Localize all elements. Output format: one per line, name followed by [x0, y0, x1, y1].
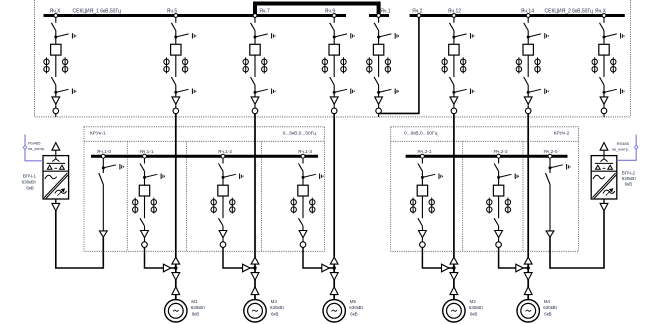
circuit breaker Q, cell Яч.1 [373, 44, 383, 55]
circuit breaker Q, cell Яч.12 [449, 44, 459, 55]
current transformers TA, cell Яч.2-2 [487, 198, 511, 214]
wire: cell Яч.1 [378, 104, 380, 108]
disconnector QS, cell Яч.2-2 [494, 164, 499, 172]
cable plug connector, cell Яч.12 [450, 97, 458, 104]
wire: stem of cell Яч.1-1 [144, 158, 146, 164]
cable plug connector, cell Яч.X-right [600, 97, 608, 104]
wire: cell Яч.1-3 [302, 171, 304, 185]
ВПЧ-1 winding link dash [54, 167, 57, 169]
wire: cell Яч.1-3 [302, 238, 304, 242]
svg-text:Яч.2-2: Яч.2-2 [493, 149, 508, 155]
wire: ВПЧ-2 to lower run [603, 199, 605, 203]
wire: cell Яч.5 [175, 104, 177, 108]
earthing switch QSG2, cell Яч.X-left [56, 89, 76, 95]
busbar КРУн-2 [406, 155, 568, 158]
wire: cell Яч.9 [333, 31, 335, 44]
wire: cell Яч.9 [333, 104, 335, 108]
svg-text:M5: M5 [350, 299, 357, 304]
disconnector QS lower, cell Яч.2-2 [494, 218, 499, 226]
cable plug connector, cell Яч.1-0 [99, 231, 107, 237]
node: junction, cell Яч.X-right [603, 36, 606, 39]
node: bus connection point cell Яч.1 [377, 14, 381, 18]
svg-text:630кВт: 630кВт [349, 305, 363, 310]
node: bus connection point cell Яч.12 [452, 14, 456, 18]
current transformers TA, cell Яч.9 [322, 57, 346, 73]
earthing switch QSG, cell Яч.2-2 [499, 174, 519, 180]
svg-text:630кВт: 630кВт [469, 305, 483, 310]
wire: cell Яч.1 [378, 85, 380, 97]
wire: stem of cell Яч.1 [378, 17, 380, 23]
svg-text:0...6кВ,0...50Гц: 0...6кВ,0...50Гц [283, 131, 317, 137]
disconnector QS lower, cell Яч.1-3 [299, 218, 304, 226]
svg-text:на_контр.: на_контр. [28, 147, 45, 151]
current transformers TA, cell Яч.1-2 [211, 198, 235, 214]
earthing switch QSG1, cell Яч.7 [255, 33, 275, 39]
ВПЧ-1 winding separation bar [47, 162, 65, 164]
wire: cell Яч.1-1 [144, 226, 146, 231]
cable terminal circle, cell Яч.7 [252, 108, 258, 114]
disconnector QS lower, cell Яч.12 [449, 77, 454, 85]
disconnector QS upper, cell Яч.X-right [600, 23, 605, 31]
circuit breaker Q, cell Яч.X-right [599, 44, 609, 55]
cable plug connector, cell Яч.14 [524, 97, 532, 104]
node: junction, cell Яч.X-right [603, 91, 606, 94]
wire: cell Яч.X-left [55, 85, 57, 97]
switchgear room dashed border left [34, 0, 36, 117]
node: bus connection point cell Яч.1-3 [301, 154, 305, 158]
wire: stem of cell Яч.1-2 [222, 158, 224, 164]
wire: cell Яч.14 [527, 55, 529, 77]
wire: cell Яч.1-1 [144, 238, 146, 242]
busbar tie stub segment for cell Яч.1 [369, 14, 389, 17]
wire: direct feeder line down to motor M2 [453, 114, 455, 300]
wire: direct feeder line down to motor M5 [333, 114, 335, 300]
wire: cell Яч.X-left outgoing [55, 114, 57, 117]
earthing switch QSG, cell Яч.1-1 [145, 174, 165, 180]
node: junction, cell Яч.9 [333, 91, 336, 94]
svg-text:630кВт: 630кВт [622, 176, 636, 181]
svg-text:RS485: RS485 [28, 141, 41, 146]
ВПЧ-1 output variable-frequency sine symbol [55, 190, 67, 193]
svg-text:630кВт: 630кВт [191, 305, 205, 310]
svg-text:Яч.1-1: Яч.1-1 [139, 149, 154, 155]
current transformers TA, cell Яч.X-right [592, 57, 616, 73]
svg-text:Яч.1: Яч.1 [380, 9, 391, 15]
cable plug connector, cell Яч.1-2 [219, 231, 227, 238]
earthing switch QSG, cell Яч.2-1 [422, 174, 442, 180]
wire: stem of cell Яч.2-1 [421, 158, 423, 164]
svg-text:6кВ: 6кВ [470, 311, 477, 316]
cable plug connector, cell Яч.5 [172, 97, 180, 104]
earthing switch QSG1, cell Яч.9 [334, 33, 354, 39]
node: junction, cell Яч.7 [254, 91, 257, 94]
svg-text:СЕКЦИЯ_1 6кВ,50Гц: СЕКЦИЯ_1 6кВ,50Гц [73, 9, 122, 15]
disconnector QS upper, cell Яч.7 [251, 23, 256, 31]
wire: cell Яч.X-right [603, 31, 605, 44]
flow direction arrow into M4 junction [516, 264, 524, 272]
frequency converter ВПЧ-1 enclosure [43, 156, 69, 199]
node: bus connection point cell Яч.X-right [602, 14, 606, 18]
wire: M4 VFD branch from КРУн cell [499, 247, 529, 268]
separable connector upper half, M4 [524, 273, 532, 281]
disconnector QS upper, cell Яч.14 [524, 23, 529, 31]
separable connector upper half, M5 [330, 273, 338, 281]
disconnector QS lower, cell Яч.X-right [600, 77, 605, 85]
ВПЧ-2 input sine symbol [593, 175, 605, 179]
switchgear room dashed border right [630, 0, 632, 117]
connector plug above M4 junction [524, 257, 532, 264]
circuit breaker Q, cell Яч.9 [329, 44, 339, 55]
cable terminal circle, cell Яч.14 [525, 108, 531, 114]
node: junction, cell Яч.5 [174, 36, 177, 39]
wire: M3 VFD branch from КРУн cell [223, 247, 255, 268]
disconnector QS upper, cell Яч.1 [374, 23, 379, 31]
svg-text:Яч.1-3: Яч.1-3 [298, 149, 313, 155]
cable plug connector, cell Яч.2-1 [419, 231, 427, 238]
earthing switch QSG2, cell Яч.12 [454, 89, 474, 95]
cable plug connector below ВПЧ-2 [600, 203, 608, 211]
svg-text:630кВт: 630кВт [22, 180, 36, 185]
flow direction arrow into M5 junction [322, 264, 330, 272]
cable plug connector, cell Яч.7 [251, 97, 259, 104]
svg-text:RS485: RS485 [617, 141, 630, 146]
svg-text:M4: M4 [544, 299, 551, 304]
КРУн-2 dashed enclosure [391, 127, 579, 252]
earthing switch QSG1, cell Яч.1 [379, 33, 399, 39]
disconnector QS lower, cell Яч.14 [524, 77, 529, 85]
wire: cell Яч.7 [254, 31, 256, 44]
circuit breaker Q, cell Яч.5 [171, 44, 181, 55]
wire: stem of cell Яч.2-0 [549, 158, 551, 173]
node: bus connection point cell Яч.1-1 [143, 154, 147, 158]
node: junction, cell Яч.X-left [54, 36, 57, 39]
earthing switch QSG2, cell Яч.1 [379, 89, 399, 95]
cable plug connector below ВПЧ-1 [52, 203, 60, 211]
node: junction, cell Яч.2-0 [549, 166, 552, 169]
separable connector upper half, M3 [251, 273, 259, 281]
wire: cell Яч.1-3 [302, 196, 304, 218]
wire: direct feeder line down to motor M3 [254, 114, 256, 300]
node: junction, cell Яч.X-left [54, 91, 57, 94]
ВПЧ-2 winding link dash [603, 167, 606, 169]
node: bus connection point cell Яч.2-1 [421, 154, 425, 158]
separable connector lower half, M3 [251, 287, 259, 295]
wire: stem of cell Яч.1-3 [302, 158, 304, 164]
flow direction arrow into M3 junction [243, 264, 251, 272]
disconnector QS upper, cell Яч.5 [171, 23, 176, 31]
cable plug connector, cell Яч.1-3 [299, 231, 307, 238]
circuit breaker Q, cell Яч.14 [523, 44, 533, 55]
wire: cell Яч.2-2 [498, 196, 500, 218]
svg-text:Яч.2: Яч.2 [412, 9, 423, 15]
node: junction, cell Яч.1 [377, 91, 380, 94]
wire: stem of cell Яч.9 [333, 17, 335, 23]
cable terminal circle, cell Яч.1-2 [220, 242, 226, 248]
disconnector QS, cell Яч.1-1 [140, 164, 145, 172]
node: junction, cell Яч.2-2 [497, 176, 500, 179]
bus tie overpass right drop to Яч.1 stub [377, 4, 381, 15]
current transformers TA, cell Яч.14 [516, 57, 540, 73]
node: bus connection point cell Яч.1-2 [221, 154, 225, 158]
ВПЧ-2 output variable-frequency sine symbol [603, 190, 615, 193]
wire: cell Яч.12 [453, 31, 455, 44]
earthing switch QSG1, cell Яч.5 [176, 33, 196, 39]
wire: cell Яч.12 outgoing [453, 114, 455, 117]
earthing switch QSG2, cell Яч.7 [255, 89, 275, 95]
svg-text:6кВ: 6кВ [271, 311, 278, 316]
wire: M2 VFD branch from КРУн cell [422, 247, 454, 268]
current transformers TA, cell Яч.2-1 [410, 198, 434, 214]
earthing switch QSG1, cell Яч.12 [454, 33, 474, 39]
КРУн-2 cell separator 1 [462, 141, 464, 251]
current transformers TA, cell Яч.1 [367, 57, 391, 73]
svg-text:КРУн-2: КРУн-2 [554, 131, 570, 137]
node: junction at motor M5 [333, 266, 336, 269]
wire: Яч.2-0 run to ВПЧ-2 output [550, 267, 605, 269]
wire: cell Яч.7 outgoing [254, 114, 256, 117]
svg-text:630кВт: 630кВт [543, 305, 557, 310]
wire: cell Яч.1-2 [222, 226, 224, 231]
earthing switch QSG1, cell Яч.14 [528, 33, 548, 39]
svg-text:630кВт: 630кВт [270, 305, 284, 310]
earthing switch QSG, cell Яч.1-3 [303, 174, 323, 180]
ВПЧ-1 secondary delta winding 2 [60, 165, 65, 169]
motor M4 [517, 300, 539, 322]
wire: cell Яч.5 [175, 55, 177, 77]
disconnector QS lower, cell Яч.2-1 [418, 218, 423, 226]
wire: tie cable Яч.1 bottom to Яч.2 riser [379, 17, 419, 113]
node: junction, cell Яч.12 [452, 91, 455, 94]
bus tie overpass left drop to section 1 [253, 4, 257, 15]
disconnector QS upper, cell Яч.12 [449, 23, 454, 31]
cable plug connector, cell Яч.X-left [52, 97, 60, 104]
busbar section 2 СЕКЦИЯ_2 [410, 14, 625, 17]
wire: direct feeder line down to motor M4 [527, 114, 529, 300]
motor M3 [244, 300, 266, 322]
wire: cell Яч.12 [453, 55, 455, 77]
flow direction arrow into M1 junction [163, 264, 171, 272]
cable terminal circle, cell Яч.1-1 [142, 242, 148, 248]
ВПЧ-2 secondary delta winding 1 [596, 165, 601, 169]
cable terminal circle, cell Яч.12 [451, 108, 457, 114]
wire: stem of cell Яч.7 [254, 17, 256, 23]
wire: cell Яч.14 [527, 104, 529, 108]
earthing switch QSG1, cell Яч.X-left [56, 33, 76, 39]
ВПЧ-1 converter diagonal [44, 173, 67, 198]
disconnector QS, cell Яч.2-1 [418, 164, 423, 172]
cable terminal circle, cell Яч.5 [173, 108, 179, 114]
cable plug connector, cell Яч.9 [330, 97, 338, 104]
wire: cell Яч.1-1 [144, 171, 146, 185]
wire: cell Яч.2-1 [421, 226, 423, 231]
wire: Яч.1-0 riser [102, 237, 104, 269]
wire: cell Яч.7 [254, 55, 256, 77]
node: junction, cell Яч.1-2 [222, 176, 225, 179]
bus tie overpass link bar [253, 2, 381, 6]
ВПЧ-2 winding separation bar [595, 162, 613, 164]
connector plug above M5 junction [330, 257, 338, 264]
separable connector lower half, M5 [330, 287, 338, 295]
svg-text:ВПЧ-2: ВПЧ-2 [622, 171, 636, 176]
earthing switch QSG1, cell Яч.X-right [604, 33, 624, 39]
ВПЧ-1 input sine symbol [45, 175, 57, 179]
wire: cell Яч.2-1 [421, 196, 423, 218]
svg-text:на_контр.: на_контр. [612, 147, 629, 151]
disconnector QS lower, cell Яч.9 [330, 77, 335, 85]
cable terminal circle, cell Яч.X-right [601, 108, 607, 114]
connector plug above M3 junction [251, 257, 259, 264]
wire: cell Яч.9 outgoing [333, 114, 335, 117]
connector plug above M1 junction [172, 257, 180, 264]
wire: cell Яч.X-left [55, 55, 57, 77]
separable connector upper half, M2 [450, 273, 458, 281]
disconnector QS lower, cell Яч.7 [251, 77, 256, 85]
wire: cell Яч.1-1 [144, 196, 146, 218]
disconnector QS upper, cell Яч.9 [330, 23, 335, 31]
disconnector QS lower, cell Яч.X-left [51, 77, 56, 85]
wire: cell Яч.X-right [603, 104, 605, 108]
wire: M5 VFD branch from КРУн cell [303, 247, 334, 268]
wire: cell Яч.X-left [55, 31, 57, 44]
node: junction, cell Яч.1-1 [143, 176, 146, 179]
busbar КРУн-1 [91, 155, 318, 158]
svg-text:Яч.7: Яч.7 [259, 9, 270, 15]
svg-text:M1: M1 [191, 299, 198, 304]
motor M2 [443, 300, 465, 322]
wire: cell Яч.1-2 [222, 196, 224, 218]
frequency converter ВПЧ-2 enclosure [591, 156, 617, 199]
node: junction, cell Яч.1-3 [302, 176, 305, 179]
wire: cell Яч.2-1 [421, 171, 423, 185]
separable connector lower half, M1 [172, 287, 180, 295]
svg-text:6кВ: 6кВ [625, 181, 632, 186]
busbar section 1 СЕКЦИЯ_1 [44, 14, 347, 17]
disconnector QS, cell Яч.2-0 [546, 173, 551, 185]
wire: cell Яч.12 [453, 85, 455, 97]
separable connector lower half, M2 [450, 287, 458, 295]
current transformers TA, cell Яч.1-3 [291, 198, 315, 214]
vacuum contactor KM, cell Яч.1-1 [139, 185, 149, 196]
cable terminal circle, cell Яч.1-3 [300, 242, 306, 248]
node: bus connection point cell Яч.7 [253, 14, 257, 18]
node: junction at motor M2 [452, 266, 455, 269]
disconnector QS upper, cell Яч.X-left [51, 23, 56, 31]
node: bus connection point cell Яч.2-0 [548, 154, 552, 158]
wire: cell Яч.9 [333, 55, 335, 77]
node: bus connection point cell Яч.9 [332, 14, 336, 18]
ВПЧ-1 primary winding symbol [52, 156, 59, 161]
cable plug connector, cell Яч.2-2 [495, 231, 503, 238]
КРУн-2 cell separator 2 [522, 141, 524, 251]
wire: ВПЧ-1 output down [55, 211, 57, 268]
svg-text:КРУн-1: КРУн-1 [90, 131, 106, 137]
ВПЧ-2 primary winding symbol [600, 156, 607, 161]
wire: Яч.2-0 down run [549, 237, 551, 269]
cable terminal circle, cell Яч.1 [376, 108, 382, 114]
ВПЧ-2 secondary delta winding 2 [608, 165, 613, 169]
wire: cell Яч.X-right outgoing [603, 114, 605, 117]
wire: cell Яч.X-right [603, 55, 605, 77]
current transformers TA, cell Яч.5 [164, 57, 188, 73]
ВПЧ-2 transformer compartment divider [591, 170, 617, 172]
motor M1 [165, 300, 187, 322]
circuit breaker Q, cell Яч.7 [250, 44, 260, 55]
svg-text:M2: M2 [470, 299, 477, 304]
ВПЧ-2 converter diagonal 2 [594, 175, 616, 198]
wire: cell Яч.1 [378, 55, 380, 77]
disconnector QS lower, cell Яч.1-1 [140, 218, 145, 226]
current transformers TA, cell Яч.X-left [44, 57, 68, 73]
wire: cell Яч.5 [175, 31, 177, 44]
svg-text:ВПЧ-1: ВПЧ-1 [23, 174, 37, 179]
vacuum contactor KM, cell Яч.1-2 [218, 185, 228, 196]
wire: ВПЧ-2 output down [603, 211, 605, 268]
earthing switch QSG2, cell Яч.5 [176, 89, 196, 95]
disconnector QS, cell Яч.1-0 [99, 173, 104, 185]
wire: stem of cell Яч.5 [175, 17, 177, 23]
node: junction, cell Яч.12 [452, 36, 455, 39]
ВПЧ-1 converter diagonal 2 [46, 175, 68, 198]
earthing switch QSG2, cell Яч.9 [334, 89, 354, 95]
current transformers TA, cell Яч.12 [442, 57, 466, 73]
wire: cell Яч.1 outgoing [378, 114, 380, 117]
wire: direct feeder line down to motor M1 [175, 114, 177, 300]
wire: cell Яч.2-2 [498, 238, 500, 242]
cable terminal circle, cell Яч.2-2 [496, 242, 502, 248]
wire: cell Яч.1 [378, 31, 380, 44]
cable plug connector, cell Яч.2-0 [546, 231, 554, 237]
wire: cell Яч.2-2 [498, 226, 500, 231]
earthing switch QSG2, cell Яч.X-right [604, 89, 624, 95]
node: bus connection point cell Яч.5 [174, 14, 178, 18]
node: junction, cell Яч.9 [333, 36, 336, 39]
node: junction, cell Яч.7 [254, 36, 257, 39]
cable terminal circle, cell Яч.9 [331, 108, 337, 114]
wire: M1 VFD branch from КРУн cell [145, 247, 176, 268]
КРУн-1 cell separator 2 [186, 141, 188, 251]
wire: cell Яч.5 [175, 85, 177, 97]
wire: RS485 link to ВПЧ-2 [617, 135, 636, 161]
wire: cell Яч.2-0 [549, 185, 551, 231]
wire: cell Яч.2-1 [421, 238, 423, 242]
circuit breaker Q, cell Яч.X-left [51, 44, 61, 55]
vacuum contactor KM, cell Яч.1-3 [298, 185, 308, 196]
wire: cell Яч.5 outgoing [175, 114, 177, 117]
node: junction at motor M1 [174, 266, 177, 269]
wire: cell Яч.1-0 [102, 185, 104, 231]
svg-text:0...6кВ,0...50Гц: 0...6кВ,0...50Гц [404, 131, 438, 137]
wire: cell Яч.1-3 [302, 226, 304, 231]
ВПЧ-1 transformer compartment divider [43, 170, 69, 172]
node: bus connection point cell Яч.1-0 [101, 154, 105, 158]
node: junction at motor M4 [527, 266, 530, 269]
wire: cell Яч.1-2 [222, 171, 224, 185]
wire: ВПЧ-1 to lower run [55, 199, 57, 203]
КРУн-2 label strip divider [391, 140, 579, 142]
earthing switch QSG, cell Яч.1-0 [103, 164, 123, 170]
wire: cell Яч.1-2 [222, 238, 224, 242]
wire: stem of cell Яч.1-0 [102, 158, 104, 173]
separable connector upper half, M1 [172, 273, 180, 281]
node: junction, cell Яч.5 [174, 91, 177, 94]
RS485 connector node ВПЧ-1 [23, 145, 27, 149]
RS485 connector node ВПЧ-2 [634, 145, 638, 149]
wire: cell Яч.9 [333, 85, 335, 97]
cable terminal circle, cell Яч.X-left [53, 108, 59, 114]
wire: stem of cell Яч.X-left [55, 17, 57, 23]
wire: cell Яч.14 outgoing [527, 114, 529, 117]
wire: cell Яч.X-right [603, 85, 605, 97]
